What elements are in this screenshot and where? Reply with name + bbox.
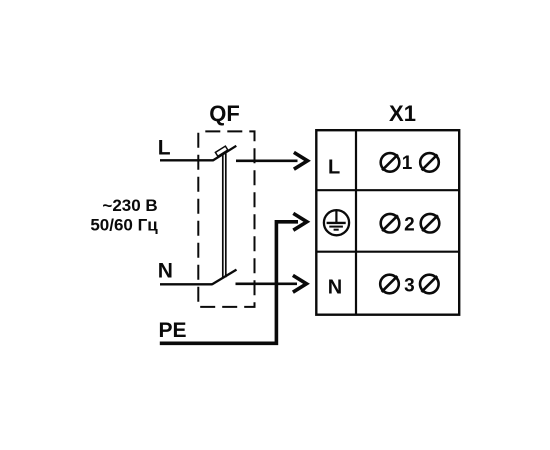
- svg-text:3: 3: [404, 276, 415, 297]
- wire L to X1 with arrow: [236, 159, 298, 162]
- wire PE run: [160, 222, 298, 343]
- terminal screw 3a: [380, 275, 399, 294]
- svg-text:~230 В: ~230 В: [102, 196, 157, 215]
- X1 row divider 1: [316, 189, 459, 191]
- X1 row divider 2: [316, 251, 459, 253]
- protective earth symbol: [324, 210, 349, 235]
- breaker QF dashed outline: [198, 131, 254, 307]
- wire L left segment: [160, 159, 214, 161]
- terminal screw 1b: [420, 153, 439, 172]
- terminal screw 2b: [421, 214, 440, 233]
- svg-text:L: L: [328, 157, 340, 179]
- svg-text:QF: QF: [209, 101, 240, 126]
- svg-text:X1: X1: [389, 101, 416, 126]
- wire N left segment: [160, 283, 212, 285]
- breaker contact rectangle: [215, 146, 227, 156]
- switch lever N pole: [212, 270, 237, 285]
- svg-text:N: N: [158, 259, 173, 282]
- PE arrowhead: [293, 213, 307, 230]
- terminal screw 1a: [381, 153, 400, 172]
- linkage double line: [222, 153, 224, 277]
- svg-text:L: L: [158, 137, 171, 160]
- svg-text:2: 2: [404, 215, 415, 236]
- svg-text:N: N: [328, 277, 342, 299]
- switch lever L pole: [213, 146, 236, 161]
- svg-text:PE: PE: [159, 319, 187, 342]
- svg-text:50/60 Гц: 50/60 Гц: [90, 216, 158, 235]
- terminal screw 2a: [381, 214, 400, 233]
- terminal block X1 outline: [316, 130, 459, 315]
- wire N to X1 with arrow: [236, 282, 298, 285]
- terminal screw 3b: [420, 275, 439, 294]
- X1 column divider: [355, 130, 357, 315]
- svg-text:1: 1: [402, 153, 413, 174]
